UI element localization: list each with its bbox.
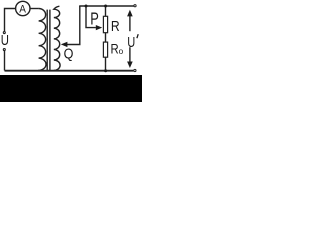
svg-text:P: P (90, 9, 99, 29)
svg-text:R: R (111, 18, 120, 35)
svg-text:A: A (19, 3, 26, 15)
svg-text:o: o (119, 46, 124, 56)
svg-text:Q: Q (64, 46, 74, 62)
svg-text:R: R (111, 41, 119, 57)
svg-text:U: U (1, 33, 9, 49)
svg-text:U: U (127, 35, 135, 51)
